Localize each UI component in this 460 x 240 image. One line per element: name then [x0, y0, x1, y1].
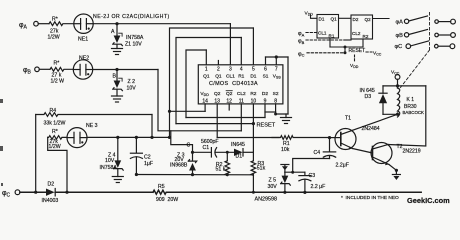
svg-text:C: C [187, 142, 191, 148]
svg-text:* INCLUDED IN THE NEO: * INCLUDED IN THE NEO [341, 195, 399, 201]
svg-text:7: 7 [275, 66, 278, 72]
wire Z5 C3 node bar [285, 171, 305, 173]
svg-text:NE1: NE1 [78, 37, 88, 43]
svg-text:R2: R2 [363, 34, 369, 39]
node B junction [115, 68, 118, 71]
svg-text:2: 2 [217, 66, 220, 72]
wire [39, 68, 50, 70]
switch phiA contact [404, 16, 455, 24]
svg-text:2N2484: 2N2484 [362, 126, 380, 132]
wire C4 to Z5 C3 node [293, 159, 330, 173]
svg-text:D2: D2 [353, 17, 359, 22]
svg-text:CL1: CL1 [318, 30, 327, 35]
wire Q1 to D2 [339, 17, 352, 19]
svg-text:R1: R1 [329, 34, 335, 39]
svg-text:RESET: RESET [349, 48, 366, 54]
junction Z3 bottom [191, 173, 194, 176]
svg-text:8: 8 [274, 99, 277, 105]
wire loop to pin1 Q1 [186, 50, 206, 118]
svg-text:R5: R5 [158, 184, 165, 190]
wire phiC dashed to reset [307, 52, 345, 54]
wire R1 drop [329, 38, 331, 47]
svg-text:A: A [111, 29, 115, 35]
pin 1 stub [205, 50, 207, 65]
overbar Q2bar [226, 90, 233, 92]
svg-text:33k 1/2W: 33k 1/2W [44, 120, 66, 126]
wire VSS rail right of IC [287, 57, 289, 114]
terminal phiB [35, 67, 40, 72]
svg-text:Q2: Q2 [214, 91, 221, 97]
pin 6 stub [265, 57, 267, 65]
svg-text:D1: D1 [236, 154, 243, 160]
junction pin8 [274, 113, 277, 116]
svg-text:φA: φA [396, 19, 404, 25]
neon lamp NE1 [74, 14, 93, 33]
svg-text:Z 5: Z 5 [269, 178, 277, 184]
junction node C [191, 151, 194, 154]
wire T1 collector to relay [352, 114, 398, 130]
pin 9 stub D2 [264, 104, 266, 118]
neon lamp NE2 [73, 60, 92, 79]
junction phiC R* hook [65, 191, 68, 194]
pin 5 stub [252, 28, 254, 65]
zener Z5 [281, 172, 291, 192]
svg-text:K 1: K 1 [407, 97, 415, 103]
resistor R3 vertical [251, 152, 256, 175]
junction Z4 [116, 136, 119, 139]
junction relay top [396, 84, 399, 87]
junction VDD rail end [168, 136, 171, 139]
svg-text:IN4003: IN4003 [42, 198, 59, 204]
wire R2 drop [362, 39, 364, 47]
wire reset dashed to Vdd label [354, 55, 356, 62]
svg-text:30V: 30V [268, 184, 278, 190]
diode D3 IN645 [379, 86, 398, 114]
pin 11 stub CL2 [240, 104, 242, 131]
svg-text:IN758A: IN758A [100, 165, 118, 171]
wire mid rail drop [252, 175, 254, 193]
capacitor C1 [211, 148, 234, 157]
resistor R5 [153, 190, 421, 194]
svg-text:GeekIC.com: GeekIC.com [407, 196, 450, 205]
resistor R* row2 [50, 67, 73, 71]
zener Z3 [188, 152, 196, 174]
relay coil K1 [398, 88, 400, 117]
svg-text:C2: C2 [144, 154, 151, 160]
junction C4 top [328, 136, 331, 139]
svg-text:IN968B: IN968B [170, 162, 188, 168]
svg-text:6: 6 [264, 66, 267, 72]
wire Q2 to R1 [217, 137, 279, 139]
svg-text:CL2: CL2 [352, 31, 361, 36]
svg-text:IN645: IN645 [231, 142, 245, 148]
svg-text:NE-2J OR C2AC(DIALIGHT): NE-2J OR C2AC(DIALIGHT) [93, 14, 170, 20]
svg-text:T1: T1 [345, 115, 351, 121]
wire relay top bar [383, 85, 426, 87]
svg-text:φA: φA [298, 31, 305, 37]
neon lamp NE3 [67, 128, 87, 148]
svg-text:1μF: 1μF [144, 161, 153, 167]
flip-flop FF1 box [317, 15, 339, 39]
junction T2 emitter [395, 169, 398, 172]
resistor R* row1 [49, 22, 73, 26]
wire row1 to pin3 [93, 23, 230, 25]
diode D1 [234, 149, 253, 156]
wire reset drop [344, 47, 346, 53]
svg-text:C/MOS CD4013A: C/MOS CD4013A [209, 81, 258, 87]
junction R4 drop [150, 136, 153, 139]
pin 10 stub R2 reset [252, 104, 254, 152]
svg-text:51k: 51k [257, 165, 266, 171]
ground Z4 [112, 177, 123, 183]
svg-text:1/2 W: 1/2 W [51, 78, 65, 84]
svg-text:RESET: RESET [257, 123, 276, 129]
flip-flop FF2 box [351, 15, 373, 39]
svg-text:14: 14 [202, 99, 208, 105]
svg-text:BABCOCK: BABCOCK [403, 110, 425, 115]
svg-text:C4: C4 [314, 150, 321, 156]
svg-text:Z 2: Z 2 [128, 79, 136, 85]
ground arrow T2 [392, 170, 400, 180]
IC U1 CD4013A body [198, 65, 283, 104]
svg-text:5: 5 [252, 66, 255, 72]
junction Z5 bottom [283, 191, 286, 194]
pin 3 stub wire from row1 [229, 24, 231, 65]
terminal phiA [34, 21, 39, 26]
IC pin numbers bottom [202, 99, 277, 105]
wire [38, 23, 49, 25]
wire loop to pin5 D1 [170, 28, 254, 137]
svg-text:Q2: Q2 [226, 91, 233, 97]
resistor R2 vertical [225, 152, 230, 175]
svg-text:12: 12 [226, 99, 232, 105]
junction C2 bottom [135, 173, 138, 176]
svg-text:2.2 μF: 2.2 μF [311, 184, 326, 190]
junction reset pin10 [252, 122, 255, 125]
wire Q1 to D2 [186, 117, 265, 119]
svg-text:4: 4 [240, 66, 243, 72]
capacitor C4 [323, 138, 335, 159]
junction relay bottom [396, 113, 399, 116]
svg-text:φC: φC [298, 51, 305, 57]
ground arrow Z5 [281, 165, 289, 173]
wire C1 line [193, 151, 211, 153]
resistor R4 [36, 113, 152, 117]
transistor T1 2N2484 [330, 129, 357, 150]
svg-text:51 k: 51 k [216, 167, 226, 173]
svg-text:2N2219: 2N2219 [403, 149, 421, 155]
svg-text:13: 13 [214, 99, 220, 105]
pin 13 stub Q2 out [216, 104, 218, 138]
svg-text:Q2: Q2 [365, 17, 372, 22]
pin 2 stub [217, 61, 219, 65]
wire R4 left drop to phiC line [35, 115, 37, 193]
svg-text:3: 3 [229, 66, 232, 72]
wire row2 [93, 69, 158, 71]
svg-text:1: 1 [205, 66, 208, 72]
junction R2 top [226, 151, 229, 154]
svg-text:S2: S2 [273, 91, 279, 97]
wire S1 VSS tie [266, 56, 289, 58]
wire Vcc to relay top [397, 79, 399, 88]
capacitor C2 [130, 137, 142, 174]
pin 4 stub [240, 38, 242, 65]
svg-text:2.2μF: 2.2μF [336, 162, 349, 168]
ground row2 [112, 96, 123, 102]
pin 7 stub [275, 57, 277, 65]
resistor R* row3 [48, 136, 67, 140]
svg-text:D2: D2 [262, 91, 268, 97]
IC pin numbers top [205, 66, 278, 72]
svg-text:R*: R* [52, 17, 58, 23]
svg-text:CL2: CL2 [237, 91, 246, 97]
wire reset dashed to Vcc label [366, 51, 372, 53]
node A junction [115, 22, 118, 25]
wire switch linkage dashed [401, 13, 430, 88]
wire T2 emitter to ground [389, 165, 396, 171]
svg-text:1/2W: 1/2W [48, 35, 60, 41]
svg-text:Z1 10V: Z1 10V [125, 41, 142, 47]
pin 12 stub [228, 104, 230, 110]
junction phiC reset [344, 51, 347, 54]
svg-text:C3: C3 [309, 173, 316, 179]
svg-text:R4: R4 [50, 108, 57, 114]
zener Z4 [114, 137, 124, 176]
svg-text:NE2: NE2 [79, 55, 89, 61]
svg-text:9: 9 [264, 99, 267, 105]
wire RESET rail [176, 123, 253, 125]
wire Vdd to D1 [311, 15, 318, 18]
svg-text:10: 10 [251, 99, 257, 105]
junction C3 bottom [303, 191, 306, 194]
wire phiA dashed to CL1 [306, 32, 317, 34]
diode D2 [46, 189, 153, 196]
svg-text:D2: D2 [48, 182, 55, 188]
svg-text:11: 11 [239, 99, 244, 105]
zener Z2 [113, 70, 123, 97]
zener Z1 [113, 24, 123, 49]
wire R* hook to phiC line [48, 137, 67, 192]
svg-text:B: B [113, 74, 117, 80]
wire node C riser [171, 131, 193, 153]
junction R2 bottom [226, 173, 229, 176]
svg-text:R1: R1 [238, 73, 244, 79]
wire phiB dashed to CL2 [306, 39, 344, 41]
svg-text:R*: R* [54, 61, 60, 67]
wire +V rail NE3 [87, 136, 170, 138]
svg-text:Q1: Q1 [215, 73, 222, 79]
pin 14 stub [204, 104, 206, 111]
ground right of IC [281, 114, 292, 124]
svg-text:R2: R2 [250, 91, 256, 97]
svg-text:BR30: BR30 [404, 104, 417, 110]
svg-text:D1: D1 [319, 16, 325, 21]
svg-text:IN758A: IN758A [126, 35, 144, 41]
wire R4 right drop to +V rail [151, 115, 153, 138]
terminal phiC [15, 190, 20, 195]
wire VDD to rail [170, 110, 206, 112]
transistor T2 2N2219 [371, 143, 392, 166]
svg-text:C1: C1 [203, 145, 210, 151]
IC pin labels bottom [200, 91, 278, 97]
junction phiC R4 [34, 191, 37, 194]
svg-text:Q1: Q1 [331, 16, 338, 21]
svg-text:φC: φC [395, 44, 403, 50]
wire loop to pin4 R1 [176, 38, 241, 124]
wire reset tie bar [330, 46, 363, 48]
wire pin9 pin8 jog [265, 111, 276, 113]
junction node [291, 171, 294, 174]
wire T2 collector [388, 86, 426, 146]
junction pin7 [275, 55, 278, 58]
wire row2 drop to CL2 rail [158, 70, 241, 131]
svg-text:S1: S1 [263, 73, 269, 79]
wire mid ground rail [136, 174, 253, 176]
svg-text:AN29598: AN29598 [255, 197, 277, 203]
resistor R1 [272, 136, 329, 140]
junction mid rail drop [252, 191, 255, 194]
pin 8 stub S2 [276, 104, 288, 114]
svg-text:10k: 10k [281, 147, 290, 153]
wire T1 emitter to T2 base [353, 149, 373, 154]
junction C2 [135, 136, 138, 139]
wire phiC line [20, 191, 46, 193]
wire Q2 output [373, 18, 390, 20]
switch phiB contact [404, 30, 455, 38]
svg-text:D3: D3 [365, 94, 372, 100]
IC pin labels top [203, 73, 281, 79]
svg-text:φB: φB [396, 33, 404, 39]
svg-text:CL1: CL1 [226, 73, 235, 79]
svg-text:Q1: Q1 [203, 73, 210, 79]
terminal Vcc [395, 75, 400, 80]
switch phiC contact [406, 41, 455, 49]
ground row1 [112, 49, 123, 55]
junction VDD vertical [168, 110, 171, 113]
svg-text:1/2W: 1/2W [49, 144, 61, 150]
svg-text:909 20W: 909 20W [156, 197, 178, 203]
svg-text:R*: R* [52, 129, 58, 135]
svg-text:10V: 10V [105, 158, 115, 164]
svg-text:φB: φB [298, 39, 305, 45]
svg-text:NE 3: NE 3 [86, 123, 98, 129]
capacitor C3 [299, 172, 311, 192]
svg-text:10V: 10V [127, 86, 137, 92]
svg-text:D1: D1 [250, 73, 256, 79]
junction reset [344, 46, 347, 49]
